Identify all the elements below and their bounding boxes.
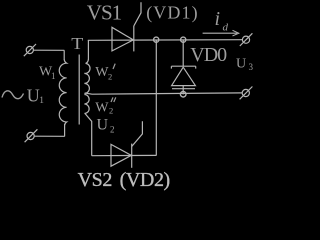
svg-text:VD0: VD0 — [190, 44, 227, 66]
svg-text:d: d — [223, 22, 229, 34]
svg-text:W: W — [95, 100, 109, 115]
svg-text:(VD2): (VD2) — [120, 169, 170, 191]
svg-text:3: 3 — [249, 62, 254, 72]
svg-text:VS2: VS2 — [78, 169, 112, 191]
svg-text:i: i — [215, 8, 221, 30]
svg-text:1: 1 — [39, 96, 44, 106]
svg-text:VS1: VS1 — [87, 1, 122, 25]
svg-text:2: 2 — [109, 106, 113, 116]
svg-text:U: U — [236, 57, 246, 72]
svg-text:U: U — [27, 86, 40, 106]
svg-text:2: 2 — [110, 125, 115, 135]
svg-text:T: T — [71, 34, 83, 52]
svg-text:U: U — [97, 117, 109, 134]
svg-text:(VD1): (VD1) — [146, 2, 199, 23]
svg-text:1: 1 — [51, 71, 56, 81]
svg-text:2: 2 — [108, 72, 112, 82]
